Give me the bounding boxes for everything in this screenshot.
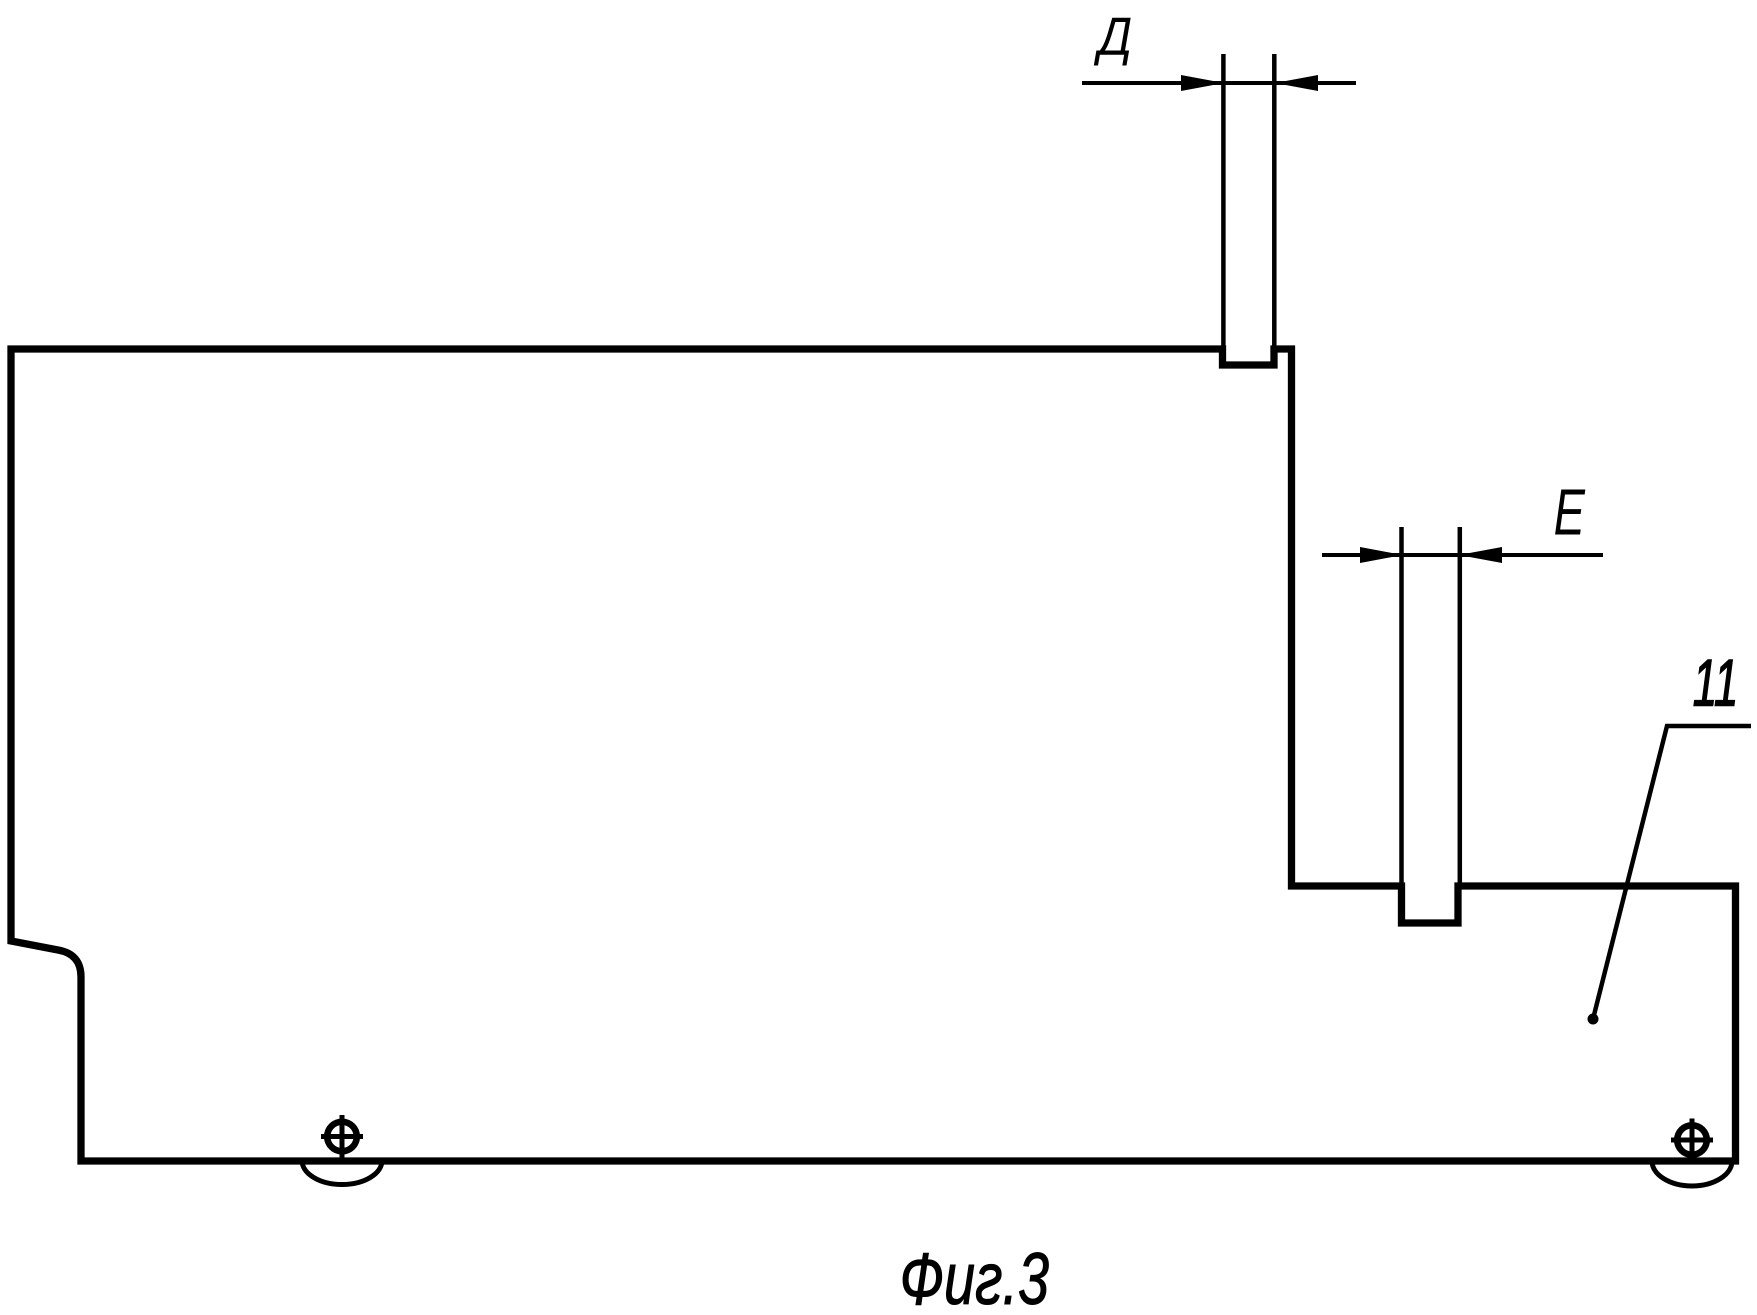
svg-text:Д: Д: [1094, 6, 1133, 66]
svg-text:11: 11: [1693, 646, 1739, 720]
svg-text:Е: Е: [1554, 476, 1586, 548]
svg-text:Фиг.3: Фиг.3: [900, 1238, 1049, 1315]
